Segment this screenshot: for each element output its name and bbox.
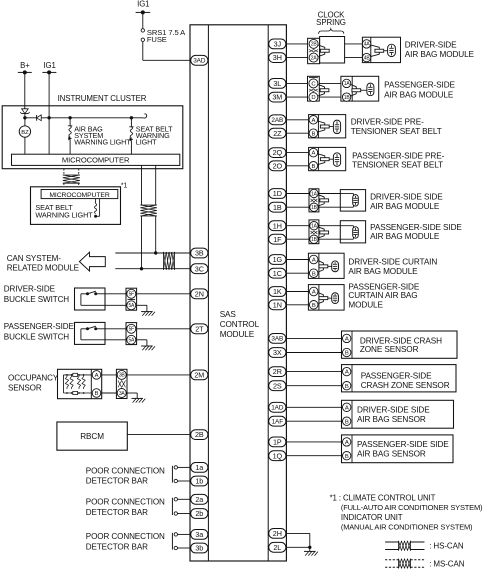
twisted pair symbol (CAN) bbox=[164, 252, 167, 270]
connector joint (pass module) bbox=[351, 85, 356, 87]
svg-text:3b: 3b bbox=[195, 544, 203, 553]
svg-text:SAS: SAS bbox=[220, 310, 237, 319]
wire B to connector bbox=[101, 392, 117, 394]
label driver curtain module bbox=[348, 258, 437, 276]
svg-text:1B: 1B bbox=[344, 95, 351, 101]
wire A to connector bbox=[101, 374, 117, 376]
svg-text:AIR BAG SENSOR: AIR BAG SENSOR bbox=[357, 415, 426, 424]
driver-side side air bag sensor bbox=[286, 400, 454, 428]
svg-text:B: B bbox=[312, 271, 316, 277]
terminal 3b bbox=[191, 543, 208, 553]
terminal 1b bbox=[191, 476, 208, 486]
driver-side crash zone sensor bbox=[286, 331, 457, 358]
label detector bar 3 bbox=[86, 532, 165, 552]
svg-text:*1: *1 bbox=[121, 182, 128, 189]
svg-text:A: A bbox=[345, 337, 349, 343]
svg-text:A: A bbox=[312, 151, 316, 157]
svg-text:2B: 2B bbox=[195, 430, 204, 439]
passenger-side pre-tensioner seat belt bbox=[286, 147, 346, 170]
terminal 1H bbox=[269, 221, 286, 231]
svg-text:A: A bbox=[312, 258, 316, 264]
svg-text:1D: 1D bbox=[273, 189, 282, 198]
terminal 3a bbox=[191, 530, 208, 540]
svg-text:BUCKLE SWITCH: BUCKLE SWITCH bbox=[4, 295, 70, 304]
occupancy sensor element bbox=[64, 373, 93, 394]
svg-text:A: A bbox=[95, 373, 99, 379]
SAS control module outline bbox=[190, 25, 286, 561]
svg-text:A: A bbox=[312, 290, 316, 296]
label driver-side buckle switch bbox=[4, 284, 70, 304]
terminal 1AD bbox=[269, 402, 286, 412]
svg-text:3M: 3M bbox=[272, 93, 282, 102]
svg-text:2N: 2N bbox=[195, 289, 204, 298]
terminal 1G bbox=[269, 255, 286, 265]
note *1 climate control bbox=[330, 493, 483, 531]
diode to buzzer branch bbox=[37, 115, 42, 121]
svg-text:A: A bbox=[345, 440, 349, 446]
terminal 2N bbox=[191, 289, 208, 299]
label CAN system-related module bbox=[7, 254, 80, 272]
wire CAN-H to 3B bbox=[115, 252, 192, 254]
seat belt warning light (cluster) bbox=[129, 118, 133, 154]
svg-text:1G: 1G bbox=[273, 255, 283, 264]
node IG1 (top) bbox=[136, 0, 151, 14]
svg-text:B: B bbox=[312, 164, 316, 170]
svg-text:1Q: 1Q bbox=[273, 451, 283, 460]
svg-text:PASSENGER-SIDE PRE-: PASSENGER-SIDE PRE- bbox=[352, 151, 444, 160]
svg-text:B: B bbox=[345, 419, 349, 425]
terminal 2S bbox=[269, 381, 286, 391]
svg-text:MODULE: MODULE bbox=[348, 301, 383, 310]
svg-text:CAN SYSTEM-: CAN SYSTEM- bbox=[7, 254, 62, 263]
svg-text:INSTRUMENT CLUSTER: INSTRUMENT CLUSTER bbox=[58, 94, 147, 103]
driver-side pre-tensioner seat belt bbox=[286, 115, 346, 138]
svg-text:IG1: IG1 bbox=[137, 0, 149, 9]
svg-text:*1 : CLIMATE CONTROL UNIT: *1 : CLIMATE CONTROL UNIT bbox=[330, 493, 436, 502]
wire clock spring to module bbox=[345, 44, 363, 58]
wire 2H to ground bbox=[286, 533, 310, 547]
label driver side air bag module bbox=[370, 193, 443, 211]
svg-text:DRIVER-SIDE SIDE: DRIVER-SIDE SIDE bbox=[357, 406, 430, 415]
junction ground bbox=[308, 546, 311, 549]
label passenger-side air bag module bbox=[384, 80, 455, 99]
svg-text:1N: 1N bbox=[273, 300, 282, 309]
wire B+ down bbox=[24, 72, 26, 108]
svg-text:DETECTOR BAR: DETECTOR BAR bbox=[86, 476, 148, 485]
svg-text:B: B bbox=[312, 131, 316, 137]
zener diode (B+) bbox=[20, 109, 29, 118]
connector C/D bbox=[308, 76, 320, 101]
terminal 3J bbox=[269, 39, 286, 49]
svg-text:2S: 2S bbox=[273, 381, 282, 390]
poor connection detector bar 1 bbox=[172, 466, 191, 483]
ground (occupancy) bbox=[131, 397, 143, 399]
svg-text:MICROCOMPUTER: MICROCOMPUTER bbox=[62, 155, 130, 164]
svg-text:DETECTOR BAR: DETECTOR BAR bbox=[86, 543, 148, 552]
wire fuse to 3AD bbox=[143, 42, 192, 61]
terminal 1B bbox=[269, 202, 286, 212]
terminal 1Q bbox=[269, 451, 286, 461]
svg-text:A: A bbox=[345, 370, 349, 376]
fuse SRS1 7.5A bbox=[141, 29, 144, 42]
label clock spring bbox=[316, 10, 346, 27]
svg-text:2B: 2B bbox=[311, 42, 318, 48]
passenger-side side air bag module bbox=[286, 220, 366, 244]
in-line joint (passenger air bag) bbox=[318, 85, 324, 87]
svg-text:CONTROL: CONTROL bbox=[220, 320, 260, 329]
svg-text:2O: 2O bbox=[273, 161, 283, 170]
svg-text:DETECTOR BAR: DETECTOR BAR bbox=[86, 508, 148, 517]
svg-text:3C: 3C bbox=[195, 264, 204, 273]
svg-text:1K: 1K bbox=[273, 287, 282, 296]
poor connection detector bar 3 bbox=[172, 533, 191, 550]
svg-text:B: B bbox=[345, 454, 349, 460]
terminal 1N bbox=[269, 300, 286, 310]
svg-text:DRIVER-SIDE CURTAIN: DRIVER-SIDE CURTAIN bbox=[348, 258, 437, 267]
label passenger side air bag module bbox=[370, 223, 462, 241]
svg-text:TENSIONER SEAT BELT: TENSIONER SEAT BELT bbox=[351, 127, 442, 136]
terminal 2R bbox=[269, 367, 286, 377]
connector 4A/4B bbox=[362, 40, 370, 62]
microcomputer box (*1 unit) bbox=[41, 190, 118, 199]
svg-text:4A: 4A bbox=[364, 42, 371, 48]
svg-text:5F: 5F bbox=[129, 292, 135, 298]
wire CAN-L to 3C bbox=[115, 268, 192, 270]
svg-text:2AB: 2AB bbox=[271, 117, 283, 124]
wire D to module bbox=[319, 96, 341, 98]
terminal 3C bbox=[191, 264, 208, 274]
svg-text:AIR BAG MODULE: AIR BAG MODULE bbox=[348, 267, 418, 276]
svg-text:3B: 3B bbox=[195, 249, 204, 258]
junction B+ rail bbox=[23, 116, 26, 119]
svg-text:B+: B+ bbox=[20, 61, 30, 70]
junction seat belt light branch bbox=[130, 116, 133, 119]
occupancy sensor box bbox=[58, 369, 102, 398]
svg-text:2L: 2L bbox=[273, 543, 281, 552]
passenger-side side air bag sensor bbox=[286, 435, 453, 463]
switch contact (seat belt rail) bbox=[143, 114, 147, 118]
arrow CAN system bbox=[79, 252, 105, 271]
svg-text:PASSENGER-SIDE: PASSENGER-SIDE bbox=[384, 80, 455, 89]
svg-text:CRASH ZONE SENSOR: CRASH ZONE SENSOR bbox=[361, 381, 450, 390]
label seat belt warning light (*1) bbox=[35, 203, 93, 219]
terminal 3M bbox=[269, 92, 286, 102]
svg-text:BUCKLE SWITCH: BUCKLE SWITCH bbox=[4, 332, 70, 341]
ground (SAS module) bbox=[304, 547, 318, 555]
connector joint (module) bbox=[371, 45, 379, 47]
svg-text:B: B bbox=[95, 391, 99, 397]
wire IG1 down bbox=[48, 72, 50, 117]
label SRS1 7.5 A FUSE bbox=[147, 28, 186, 44]
label detector bar 1 bbox=[86, 466, 165, 485]
connector joint (clock spring) bbox=[318, 45, 325, 47]
node IG1 (cluster) bbox=[42, 61, 56, 74]
legend HS-CAN symbol bbox=[385, 541, 424, 551]
RBCM box bbox=[57, 422, 127, 450]
svg-text:1F: 1F bbox=[273, 235, 282, 244]
wire 3B to 2M bbox=[127, 374, 192, 376]
svg-text:MICROCOMPUTER: MICROCOMPUTER bbox=[49, 192, 109, 199]
svg-text:PASSENGER-SIDE SIDE: PASSENGER-SIDE SIDE bbox=[357, 440, 449, 449]
svg-text:5F: 5F bbox=[129, 327, 135, 333]
wire RBCM to 2B bbox=[127, 434, 192, 436]
terminal 1D bbox=[269, 189, 286, 199]
driver-side buckle switch bbox=[75, 288, 192, 316]
label driver crash zone sensor bbox=[360, 337, 442, 355]
terminal 2B bbox=[191, 430, 208, 440]
wire 3J to clock spring bbox=[286, 43, 308, 45]
svg-text:1H: 1H bbox=[273, 221, 282, 230]
junction IG1 rail bbox=[47, 116, 50, 119]
passenger-side crash zone sensor bbox=[286, 365, 456, 392]
svg-text:AIR BAG SENSOR: AIR BAG SENSOR bbox=[357, 449, 426, 458]
svg-text:3X: 3X bbox=[273, 348, 282, 357]
svg-text:2a: 2a bbox=[195, 495, 203, 504]
svg-text:WARNING LIGHT: WARNING LIGHT bbox=[35, 210, 93, 219]
squib (driver air bag) bbox=[384, 44, 396, 56]
seat belt warning light (*1 unit) bbox=[94, 199, 100, 218]
squib (passenger air bag) bbox=[361, 83, 374, 96]
svg-text:1AF: 1AF bbox=[272, 419, 284, 426]
svg-text:CURTAIN AIR BAG: CURTAIN AIR BAG bbox=[348, 291, 417, 300]
svg-text:BZ: BZ bbox=[21, 130, 29, 136]
label passenger curtain module bbox=[348, 283, 419, 310]
driver-side curtain air bag module bbox=[286, 253, 344, 278]
svg-text:PASSENGER-SIDE: PASSENGER-SIDE bbox=[4, 322, 75, 331]
MS-CAN wires to climate control bbox=[63, 169, 80, 187]
label passenger crash zone sensor bbox=[361, 371, 450, 390]
terminal 2L bbox=[269, 542, 286, 552]
SAS control module label bbox=[220, 310, 260, 339]
svg-text:SPRING: SPRING bbox=[316, 18, 346, 27]
junction air bag light branch bbox=[68, 116, 71, 119]
svg-text:2R: 2R bbox=[273, 367, 282, 376]
svg-text:SENSOR: SENSOR bbox=[8, 383, 42, 392]
poor connection detector bar 2 bbox=[172, 498, 191, 516]
svg-text:3AD: 3AD bbox=[193, 58, 206, 65]
svg-text:5A: 5A bbox=[128, 303, 135, 309]
svg-text:POOR CONNECTION: POOR CONNECTION bbox=[86, 498, 165, 507]
svg-text:3AB: 3AB bbox=[271, 336, 283, 343]
connector 1A/1B (pass air bag) bbox=[342, 79, 350, 101]
label driver pre-tensioner bbox=[351, 118, 442, 137]
label passenger pre-tensioner bbox=[352, 151, 444, 169]
connector 2B/2A (clock spring) bbox=[308, 38, 320, 63]
svg-text:RELATED MODULE: RELATED MODULE bbox=[7, 263, 80, 272]
label seat belt warning light bbox=[136, 124, 173, 146]
junction HS-CAN high bbox=[154, 251, 157, 254]
terminal 3X bbox=[269, 348, 286, 358]
terminal 1C bbox=[269, 268, 286, 278]
svg-text:INDICATOR UNIT: INDICATOR UNIT bbox=[341, 513, 403, 522]
terminal 1K bbox=[269, 287, 286, 297]
label driver-side air bag module bbox=[405, 40, 475, 59]
wire 3H to clock spring bbox=[286, 57, 308, 59]
terminal 1AF bbox=[269, 416, 286, 426]
brace (clock spring) bbox=[319, 29, 344, 34]
svg-text:: MS-CAN: : MS-CAN bbox=[429, 559, 465, 568]
clock spring box bbox=[320, 37, 345, 64]
svg-text:POOR CONNECTION: POOR CONNECTION bbox=[86, 532, 165, 541]
svg-text:2Q: 2Q bbox=[273, 148, 283, 157]
svg-text:1A: 1A bbox=[344, 81, 351, 87]
svg-text:(MANUAL AIR CONDITIONER SYSTEM: (MANUAL AIR CONDITIONER SYSTEM) bbox=[341, 523, 473, 532]
svg-text:RBCM: RBCM bbox=[80, 432, 104, 441]
terminal 3L bbox=[269, 79, 286, 89]
svg-text:DRIVER-SIDE: DRIVER-SIDE bbox=[405, 40, 457, 49]
svg-text:(FULL-AUTO AIR CONDITIONER SYS: (FULL-AUTO AIR CONDITIONER SYSTEM) bbox=[341, 503, 483, 512]
svg-text:AIR BAG MODULE: AIR BAG MODULE bbox=[370, 232, 440, 241]
svg-text:2M: 2M bbox=[194, 371, 204, 380]
svg-text:1C: 1C bbox=[273, 269, 282, 278]
terminal 2H bbox=[269, 529, 286, 539]
svg-text:1A: 1A bbox=[311, 191, 318, 197]
label occupancy sensor bbox=[8, 374, 59, 393]
HS-CAN wires from cluster bbox=[140, 165, 156, 268]
svg-text:FUSE: FUSE bbox=[147, 35, 167, 44]
svg-text:3L: 3L bbox=[273, 79, 281, 88]
terminal 3H bbox=[269, 53, 286, 63]
climate control unit *1 box bbox=[31, 187, 121, 225]
node B+ bbox=[18, 61, 32, 74]
svg-text:3a: 3a bbox=[195, 530, 203, 539]
terminal 2a bbox=[191, 494, 208, 504]
svg-text:AIR BAG MODULE: AIR BAG MODULE bbox=[370, 202, 440, 211]
svg-text:ZONE SENSOR: ZONE SENSOR bbox=[360, 345, 419, 354]
terminal 3B bbox=[191, 248, 208, 258]
terminal 1P bbox=[269, 437, 286, 447]
svg-text:WARNING LIGHT: WARNING LIGHT bbox=[74, 137, 131, 146]
svg-text:3J: 3J bbox=[274, 40, 282, 49]
terminal 3AB bbox=[269, 334, 286, 344]
svg-text:A: A bbox=[312, 118, 316, 124]
svg-text:POOR CONNECTION: POOR CONNECTION bbox=[86, 466, 165, 475]
connector 3B/3A (occupancy) bbox=[116, 369, 127, 398]
svg-text:AIR BAG MODULE: AIR BAG MODULE bbox=[405, 50, 475, 59]
svg-text:TENSIONER SEAT BELT: TENSIONER SEAT BELT bbox=[352, 161, 443, 170]
svg-text:DRIVER-SIDE SIDE: DRIVER-SIDE SIDE bbox=[370, 193, 443, 202]
svg-text:PASSENGER-SIDE: PASSENGER-SIDE bbox=[361, 371, 432, 380]
driver-side side air bag module bbox=[286, 189, 366, 212]
svg-text:1P: 1P bbox=[273, 438, 282, 447]
svg-text:: HS-CAN: : HS-CAN bbox=[429, 542, 464, 551]
terminal 2M bbox=[191, 370, 208, 380]
svg-text:A: A bbox=[345, 405, 349, 411]
terminal 2O bbox=[269, 161, 286, 171]
terminal 2T bbox=[191, 324, 208, 334]
svg-text:2H: 2H bbox=[273, 529, 282, 538]
svg-text:1B: 1B bbox=[273, 203, 282, 212]
label passenger side air bag sensor bbox=[357, 440, 449, 458]
svg-text:1A: 1A bbox=[311, 224, 318, 230]
label air bag system warning light bbox=[74, 124, 131, 146]
svg-text:3H: 3H bbox=[273, 53, 282, 62]
svg-text:PASSENGER-SIDE SIDE: PASSENGER-SIDE SIDE bbox=[370, 223, 462, 232]
svg-text:B: B bbox=[345, 384, 349, 390]
svg-text:DRIVER-SIDE PRE-: DRIVER-SIDE PRE- bbox=[351, 118, 424, 127]
svg-text:2A: 2A bbox=[311, 55, 318, 61]
terminal 2Q bbox=[269, 148, 286, 158]
wire 3A to ground bbox=[127, 393, 137, 398]
svg-text:IG1: IG1 bbox=[43, 61, 55, 70]
svg-text:3A: 3A bbox=[119, 391, 126, 397]
svg-text:3B: 3B bbox=[119, 373, 126, 379]
svg-text:AIR BAG MODULE: AIR BAG MODULE bbox=[384, 90, 454, 99]
svg-text:1a: 1a bbox=[195, 463, 203, 472]
wire 2L to ground bbox=[286, 546, 310, 548]
terminal 2b bbox=[191, 509, 208, 519]
svg-text:B: B bbox=[312, 303, 316, 309]
microcomputer box (cluster) bbox=[12, 154, 180, 165]
svg-text:PASSENGER-SIDE: PASSENGER-SIDE bbox=[348, 283, 419, 292]
svg-text:D: D bbox=[311, 95, 315, 101]
wire 3L bbox=[286, 82, 308, 84]
passenger-side buckle switch bbox=[75, 322, 192, 350]
svg-text:4B: 4B bbox=[364, 55, 371, 61]
label detector bar 2 bbox=[86, 498, 165, 518]
instrument cluster box bbox=[2, 106, 183, 169]
wire C to module bbox=[319, 82, 341, 84]
junction HS-CAN low bbox=[140, 267, 143, 270]
passenger-side air bag module box bbox=[341, 76, 379, 101]
wire 3M bbox=[286, 96, 308, 98]
driver-side air bag module box bbox=[362, 37, 400, 62]
terminal 3AD bbox=[191, 55, 208, 65]
terminal 2AB bbox=[269, 115, 286, 125]
svg-text:1B: 1B bbox=[311, 205, 318, 211]
wire IG1 to microcomputer bbox=[48, 118, 50, 154]
legend MS-CAN symbol bbox=[385, 559, 424, 569]
occupancy sensor pins A/B bbox=[92, 371, 101, 398]
svg-text:MODULE: MODULE bbox=[220, 330, 255, 339]
terminal 1F bbox=[269, 234, 286, 244]
label driver side air bag sensor bbox=[357, 406, 430, 424]
wire IG1 to fuse bbox=[142, 12, 144, 28]
passenger-side curtain air bag module bbox=[286, 285, 344, 311]
bus wire across cluster bbox=[25, 117, 143, 119]
buzzer BZ bbox=[19, 118, 30, 154]
svg-text:LIGHT: LIGHT bbox=[136, 137, 157, 146]
svg-text:1AD: 1AD bbox=[271, 405, 284, 412]
svg-text:B: B bbox=[345, 351, 349, 357]
terminal 2Z bbox=[269, 128, 286, 138]
terminal 1a bbox=[191, 463, 208, 473]
label passenger-side buckle switch bbox=[4, 322, 75, 342]
svg-text:OCCUPANCY: OCCUPANCY bbox=[8, 374, 59, 383]
svg-text:DRIVER-SIDE: DRIVER-SIDE bbox=[4, 284, 56, 293]
svg-text:1B: 1B bbox=[311, 237, 318, 243]
svg-text:2b: 2b bbox=[195, 509, 203, 518]
air bag system warning light bbox=[68, 118, 72, 154]
svg-text:2T: 2T bbox=[195, 324, 204, 333]
svg-text:1b: 1b bbox=[195, 477, 203, 486]
svg-text:5A: 5A bbox=[128, 338, 135, 344]
svg-text:2Z: 2Z bbox=[273, 129, 282, 138]
